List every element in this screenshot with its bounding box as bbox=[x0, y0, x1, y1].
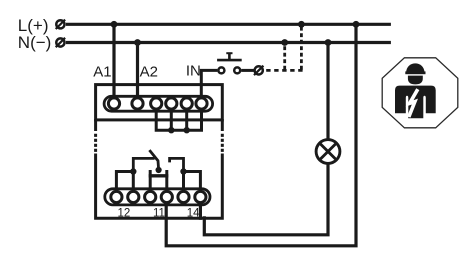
terminal 4 screw bbox=[166, 98, 177, 109]
svg-text:IN: IN bbox=[186, 63, 201, 80]
relay K1 upper box bbox=[96, 85, 223, 120]
wire N to lamp bbox=[326, 43, 329, 140]
internal bus comb bbox=[156, 108, 201, 130]
wire A2 drop bbox=[136, 43, 139, 99]
node L/output bbox=[353, 21, 360, 28]
installer icon face bbox=[408, 76, 423, 85]
wire dashed option to L bbox=[300, 26, 303, 70]
terminal 12a screw bbox=[111, 191, 122, 202]
box edge continuation left bbox=[94, 119, 97, 152]
node L/dashed bbox=[298, 21, 305, 28]
push-button S1 left contact bbox=[218, 67, 224, 73]
wire IN from terminal 6 to push-button bbox=[201, 70, 217, 97]
relay lower terminal strip bbox=[105, 189, 210, 205]
contact bracket 12 bbox=[116, 172, 133, 192]
contact common cup 11 bbox=[149, 170, 169, 192]
terminal 11b screw bbox=[161, 191, 172, 202]
push-button S1 actuator bbox=[217, 53, 242, 60]
node bracket 12 bbox=[130, 168, 136, 174]
svg-text:N(−): N(−) bbox=[18, 33, 52, 52]
terminal 3 screw bbox=[151, 98, 162, 109]
relay K1 lower box bbox=[96, 154, 223, 219]
node lever pivot bbox=[156, 167, 162, 173]
terminal 5 screw bbox=[181, 98, 192, 109]
svg-text:12: 12 bbox=[118, 207, 131, 219]
node bracket 14 bbox=[180, 168, 186, 174]
installer icon octagon bbox=[382, 58, 458, 128]
contact bracket 14 bbox=[184, 172, 201, 192]
wire L to terminal 11 bbox=[166, 24, 356, 246]
push-button S1 right contact bbox=[234, 67, 240, 73]
lamp E1 bbox=[316, 140, 340, 164]
node N/A2 bbox=[134, 39, 141, 46]
wire button to external terminal bbox=[241, 69, 254, 72]
installer icon torso bbox=[395, 86, 436, 119]
terminal A1 screw bbox=[108, 98, 119, 109]
installer icon lightning bolt bbox=[409, 89, 418, 117]
terminal 11a screw bbox=[145, 191, 156, 202]
terminal A2 screw bbox=[132, 98, 143, 109]
terminal 14a screw bbox=[178, 191, 189, 202]
wire L(+) rail bbox=[66, 23, 391, 26]
node comb 4 bbox=[168, 127, 174, 133]
terminal L(+) bbox=[56, 20, 65, 29]
wire A1 drop bbox=[112, 24, 115, 98]
installer icon helmet bbox=[405, 63, 425, 74]
relay upper terminal strip bbox=[104, 96, 213, 111]
node L/A1 bbox=[111, 21, 118, 28]
wire terminal 14 exit bbox=[199, 203, 202, 220]
contact lever bbox=[149, 150, 158, 169]
terminal external push-button bbox=[254, 66, 263, 75]
box edge continuation right bbox=[221, 119, 224, 152]
terminal IN screw bbox=[196, 98, 207, 109]
svg-text:L(+): L(+) bbox=[18, 16, 49, 35]
wire lamp to terminal 14 bbox=[204, 164, 328, 235]
wire N(-) rail bbox=[66, 41, 391, 44]
svg-text:A1: A1 bbox=[93, 63, 111, 80]
node comb 5 bbox=[184, 127, 190, 133]
wire NO fixed contact bbox=[170, 158, 184, 171]
node N/dashed bbox=[281, 39, 288, 46]
wire dashed option to N bbox=[283, 44, 286, 69]
terminal 12b screw bbox=[128, 191, 139, 202]
terminal N(-) bbox=[56, 38, 65, 47]
svg-text:A2: A2 bbox=[140, 63, 158, 80]
svg-text:11: 11 bbox=[153, 207, 165, 219]
wire NC fixed contact bbox=[133, 158, 154, 171]
svg-text:14: 14 bbox=[187, 207, 200, 219]
node N/lamp bbox=[325, 39, 332, 46]
wire dashed option horizontal bbox=[266, 69, 304, 72]
terminal 14b screw bbox=[195, 191, 206, 202]
